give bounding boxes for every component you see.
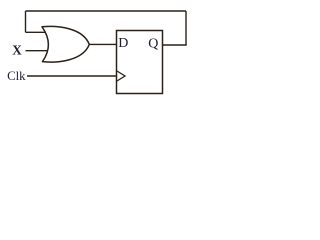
wire: feedback left vertical down to OR input	[25, 11, 27, 32]
wire: OR gate top input	[26, 31, 46, 33]
wire: Clk to flip-flop clock pin	[27, 75, 117, 77]
or-gate G1	[42, 26, 89, 62]
svg-text:Q: Q	[148, 36, 158, 51]
clock triangle on flip-flop	[117, 71, 125, 81]
wire: feedback top horizontal from Q loop	[26, 10, 187, 12]
svg-text:Clk: Clk	[7, 69, 26, 83]
wire: feedback right vertical	[185, 11, 187, 45]
wire: Q output to feedback	[163, 44, 187, 46]
wire: OR output to D input	[89, 43, 117, 45]
wire: X input to OR gate	[26, 50, 48, 52]
flip-flop U1 box	[117, 31, 163, 94]
svg-text:D: D	[118, 36, 128, 51]
svg-text:X: X	[12, 43, 22, 58]
